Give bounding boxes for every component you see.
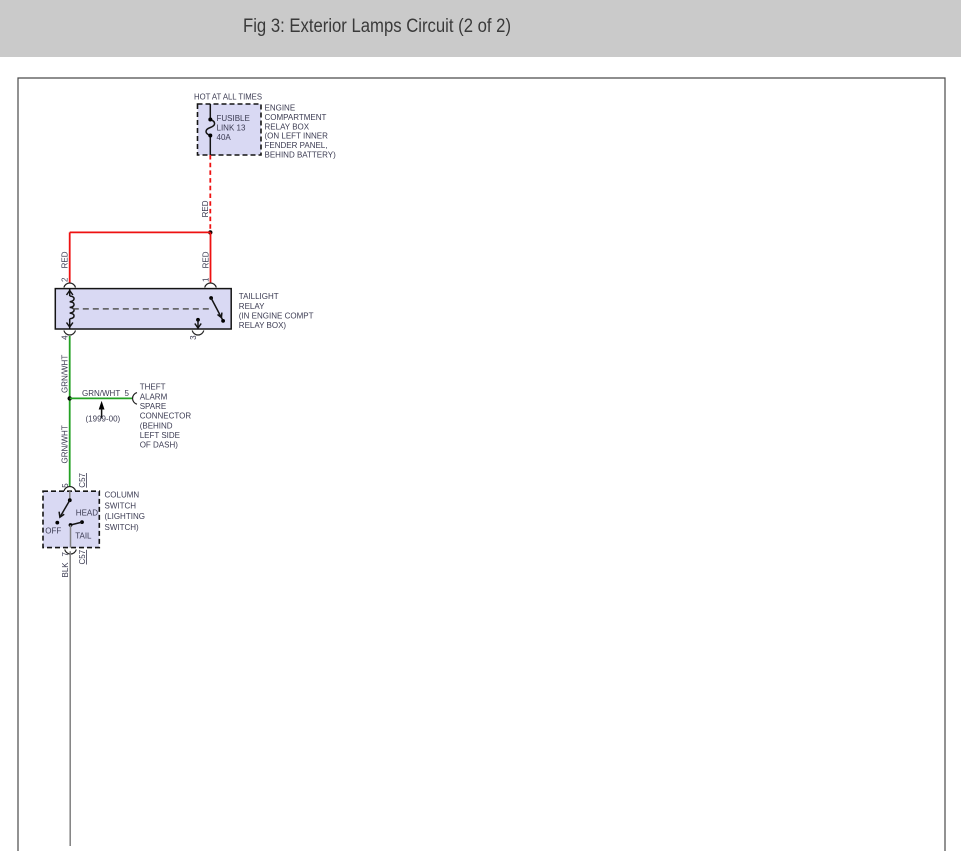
- fusible link 13 element: [209, 104, 211, 155]
- wire RED down to relay pin 1: [201, 232, 210, 283]
- svg-text:(IN ENGINE COMPT: (IN ENGINE COMPT: [239, 311, 314, 320]
- svg-text:SPARE: SPARE: [140, 402, 167, 411]
- svg-text:ALARM: ALARM: [140, 392, 168, 401]
- connector arc pin 2: [64, 283, 76, 287]
- wire RED dashed from fusible link: [201, 155, 210, 232]
- svg-text:GRN/WHT: GRN/WHT: [82, 389, 120, 398]
- svg-text:RED: RED: [61, 251, 70, 268]
- column switch (lighting switch) box: [43, 491, 99, 547]
- relay pin3 contact: [196, 318, 200, 322]
- svg-text:GRN/WHT: GRN/WHT: [60, 425, 69, 463]
- svg-text:LEFT SIDE: LEFT SIDE: [140, 431, 180, 440]
- svg-text:SWITCH): SWITCH): [105, 523, 140, 532]
- svg-text:FENDER PANEL,: FENDER PANEL,: [265, 141, 328, 150]
- svg-text:RELAY BOX: RELAY BOX: [265, 122, 310, 131]
- svg-text:FUSIBLE: FUSIBLE: [217, 114, 250, 123]
- svg-text:GRN/WHT: GRN/WHT: [60, 355, 69, 393]
- svg-text:(ON LEFT INNER: (ON LEFT INNER: [265, 132, 329, 141]
- connector arc pin 3: [192, 331, 204, 335]
- svg-text:4: 4: [61, 335, 70, 340]
- svg-text:HEAD: HEAD: [76, 509, 98, 518]
- svg-text:(BEHIND: (BEHIND: [140, 421, 173, 430]
- wire RED horizontal to relay pin2: [70, 231, 211, 233]
- svg-text:LINK 13: LINK 13: [217, 124, 246, 133]
- title bar: [0, 0, 961, 57]
- svg-text:HOT AT ALL TIMES: HOT AT ALL TIMES: [194, 93, 262, 102]
- fusible link 13 box (engine compartment relay box): [198, 104, 262, 155]
- svg-text:1: 1: [202, 277, 211, 282]
- svg-text:(1999-00): (1999-00): [86, 414, 121, 423]
- connector arc pin 1: [205, 283, 217, 287]
- svg-text:40A: 40A: [217, 133, 232, 142]
- pin 5 / C57: [61, 472, 87, 487]
- svg-text:Fig 3: Exterior Lamps Circuit: Fig 3: Exterior Lamps Circuit (2 of 2): [243, 16, 511, 37]
- label column switch: [105, 491, 145, 532]
- connector arc column switch top: [64, 487, 76, 491]
- svg-text:(LIGHTING: (LIGHTING: [105, 512, 145, 521]
- pin 7 / C57: [61, 549, 87, 564]
- svg-text:OFF: OFF: [45, 527, 61, 536]
- connector arc column switch bottom: [65, 550, 77, 554]
- relay dashed link: [73, 308, 213, 310]
- svg-text:RED: RED: [201, 251, 210, 268]
- svg-text:RELAY BOX): RELAY BOX): [239, 321, 287, 330]
- svg-text:CONNECTOR: CONNECTOR: [140, 412, 192, 421]
- taillight relay box: [55, 289, 231, 329]
- svg-text:COMPARTMENT: COMPARTMENT: [265, 113, 327, 122]
- connector arc theft alarm: [133, 393, 137, 405]
- node junction dot: [208, 230, 212, 234]
- relay coil: [69, 289, 71, 296]
- svg-text:C57: C57: [78, 549, 87, 564]
- svg-text:BEHIND BATTERY): BEHIND BATTERY): [265, 151, 337, 160]
- svg-text:C57: C57: [78, 472, 87, 487]
- label engine compartment relay box: [265, 104, 337, 160]
- svg-text:TAILLIGHT: TAILLIGHT: [239, 292, 279, 301]
- label theft alarm spare connector: [140, 383, 192, 450]
- wire BLK down from column switch: [61, 551, 70, 846]
- svg-text:ENGINE: ENGINE: [265, 104, 296, 113]
- svg-text:THEFT: THEFT: [140, 383, 166, 392]
- svg-text:3: 3: [189, 335, 198, 340]
- svg-text:BLK: BLK: [61, 562, 70, 578]
- node theft alarm junction: [68, 396, 72, 400]
- svg-text:SWITCH: SWITCH: [105, 501, 137, 510]
- wire GRN/WHT from relay pin 4: [60, 336, 69, 487]
- relay switch: [209, 296, 213, 300]
- svg-text:OF DASH): OF DASH): [140, 441, 179, 450]
- (1999-00) annotation arrow: [86, 401, 121, 423]
- wire GRN/WHT to theft alarm spare connector: [70, 389, 132, 399]
- svg-text:RELAY: RELAY: [239, 302, 265, 311]
- wire RED down to relay pin 2: [61, 232, 70, 283]
- svg-text:7: 7: [61, 552, 70, 557]
- svg-text:2: 2: [61, 277, 70, 282]
- label taillight relay: [239, 292, 314, 330]
- svg-text:5: 5: [125, 389, 130, 398]
- svg-text:RED: RED: [201, 200, 210, 217]
- svg-text:TAIL: TAIL: [75, 532, 92, 541]
- svg-text:COLUMN: COLUMN: [105, 491, 140, 500]
- connector arc pin 4: [64, 331, 76, 335]
